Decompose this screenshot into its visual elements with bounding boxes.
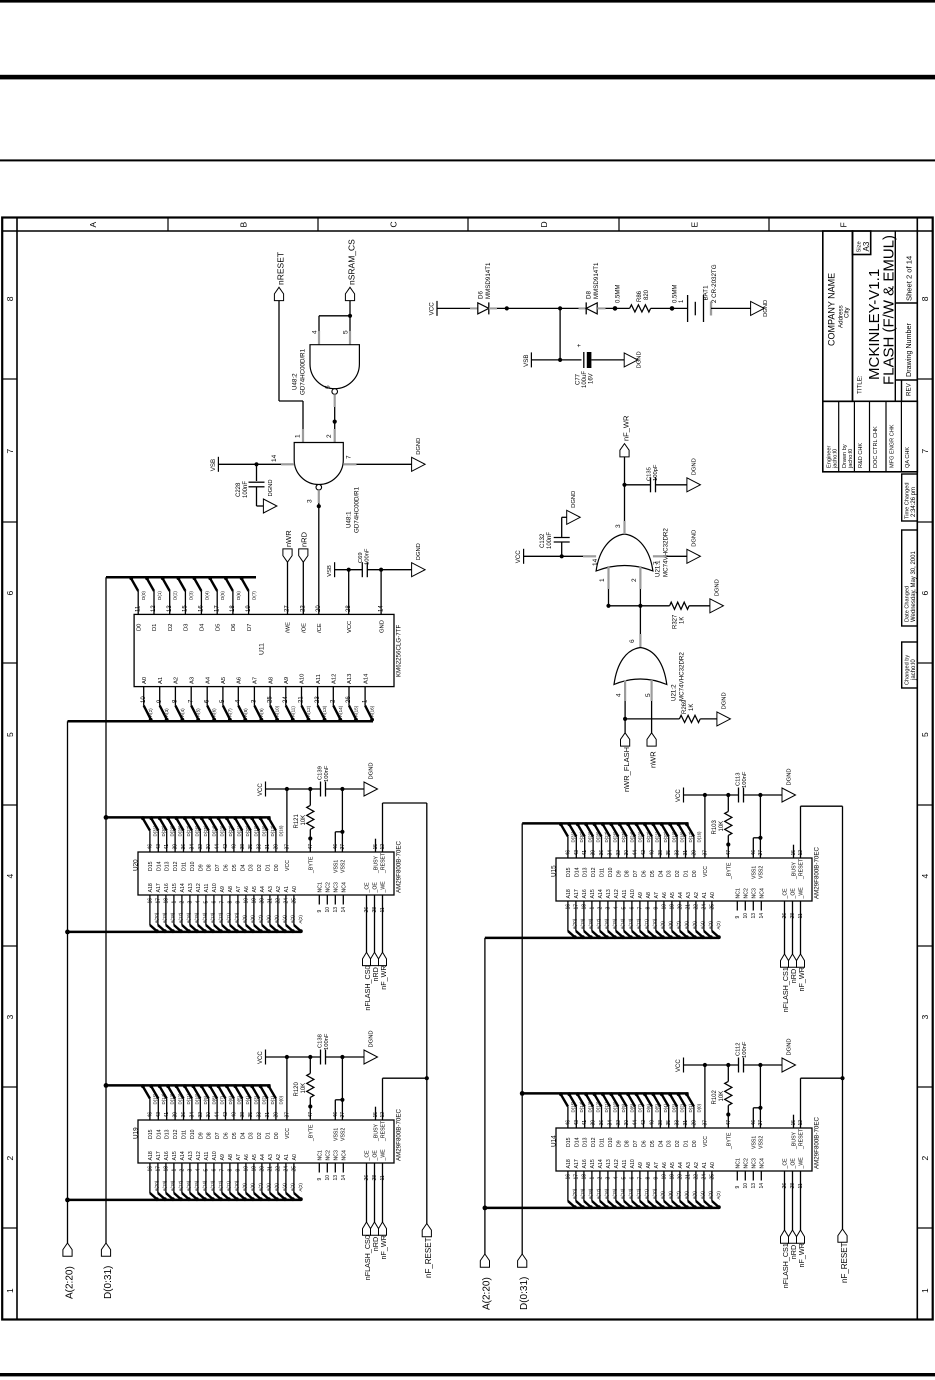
svg-text:A13: A13 bbox=[347, 674, 353, 684]
svg-text:22: 22 bbox=[693, 904, 699, 910]
svg-text:A4: A4 bbox=[260, 886, 266, 892]
svg-text:D13: D13 bbox=[165, 1129, 171, 1139]
svg-text:2: 2 bbox=[597, 1177, 603, 1180]
svg-text:A14: A14 bbox=[363, 673, 369, 684]
pins U19 data side bbox=[149, 1099, 151, 1121]
svg-text:3: 3 bbox=[307, 499, 314, 503]
wire U20 _RESET to nF_RESET net bbox=[382, 803, 384, 852]
svg-text:13: 13 bbox=[333, 1175, 339, 1181]
svg-text:A3: A3 bbox=[686, 1162, 692, 1168]
page footer rule bbox=[0, 1373, 935, 1376]
svg-text:NC3: NC3 bbox=[751, 1158, 757, 1168]
svg-text:5: 5 bbox=[343, 330, 350, 334]
ground DGND at C77 bbox=[624, 353, 638, 367]
svg-text:VCC: VCC bbox=[258, 783, 264, 796]
port D(0:31) right bbox=[518, 1254, 527, 1267]
svg-text:16: 16 bbox=[147, 1166, 153, 1172]
svg-text:29: 29 bbox=[273, 1112, 279, 1118]
svg-text:_RESET: _RESET bbox=[381, 1120, 387, 1142]
svg-text:100nF: 100nF bbox=[365, 548, 371, 565]
svg-text:_BYTE: _BYTE bbox=[308, 1124, 314, 1142]
wire to port nF_WR bbox=[800, 1181, 802, 1231]
svg-text:A5: A5 bbox=[670, 1162, 676, 1168]
svg-text:35: 35 bbox=[248, 1112, 254, 1118]
svg-text:10: 10 bbox=[325, 907, 331, 913]
title block changed-by box bbox=[902, 642, 918, 688]
svg-text:42: 42 bbox=[223, 1112, 229, 1118]
svg-text:10K: 10K bbox=[719, 821, 725, 832]
svg-text:24: 24 bbox=[701, 904, 707, 910]
svg-text:9: 9 bbox=[317, 910, 323, 913]
svg-text:D0: D0 bbox=[136, 624, 142, 631]
pins U15 _CE _OE _WE bbox=[784, 901, 786, 911]
wire to port nFLASH_CS0 bbox=[366, 905, 368, 953]
svg-text:A(2): A(2) bbox=[298, 915, 303, 924]
wire C69 to ground bbox=[368, 569, 412, 571]
svg-text:27: 27 bbox=[758, 850, 764, 856]
svg-text:D3: D3 bbox=[667, 1140, 673, 1147]
svg-text:NC2: NC2 bbox=[743, 1158, 749, 1168]
svg-text:3: 3 bbox=[5, 1015, 15, 1020]
svg-text:34: 34 bbox=[189, 1112, 195, 1118]
svg-text:A13: A13 bbox=[188, 1151, 194, 1160]
svg-text:R121: R121 bbox=[294, 813, 300, 828]
svg-text:4: 4 bbox=[613, 1177, 619, 1180]
svg-text:42: 42 bbox=[641, 850, 647, 856]
svg-text:14: 14 bbox=[341, 1175, 347, 1181]
svg-text:D(4): D(4) bbox=[204, 591, 209, 600]
svg-text:33: 33 bbox=[257, 844, 263, 850]
svg-text:13: 13 bbox=[751, 1183, 757, 1189]
pins U11 power VCC GND bbox=[348, 570, 350, 615]
svg-text:A4: A4 bbox=[678, 892, 684, 898]
svg-text:DGND: DGND bbox=[691, 530, 697, 547]
ground DGND at U48:1 pin 7 bbox=[412, 457, 426, 471]
svg-text:32: 32 bbox=[616, 1120, 622, 1126]
svg-text:MMSD914T1: MMSD914T1 bbox=[485, 262, 492, 299]
svg-text:A(16): A(16) bbox=[370, 705, 375, 717]
svg-text:A9: A9 bbox=[220, 886, 226, 892]
svg-text:NC3: NC3 bbox=[333, 882, 339, 892]
wire nWR to U11 /WE bbox=[287, 562, 289, 614]
svg-text:14: 14 bbox=[759, 913, 765, 919]
svg-text:100nF: 100nF bbox=[324, 1033, 330, 1050]
net nF_RESET right group bbox=[842, 806, 844, 1229]
svg-text:D8: D8 bbox=[586, 291, 593, 299]
wire to port nRD bbox=[374, 905, 376, 953]
bus U20 data bbox=[106, 816, 271, 819]
svg-text:A4: A4 bbox=[205, 676, 211, 684]
svg-text:B: B bbox=[239, 222, 249, 228]
svg-text:KM62256CLG-7TF: KM62256CLG-7TF bbox=[396, 625, 403, 677]
bus U15 address bbox=[485, 937, 719, 940]
svg-text:43: 43 bbox=[156, 1112, 162, 1118]
svg-text:31: 31 bbox=[265, 1112, 271, 1118]
battery BAT1 CR-2032TG bbox=[687, 295, 689, 322]
svg-text:DGND: DGND bbox=[571, 491, 577, 508]
svg-text:37: 37 bbox=[284, 844, 290, 850]
svg-text:33: 33 bbox=[675, 850, 681, 856]
pins U15 VSS1 VSS2 bbox=[752, 838, 754, 858]
svg-text:38: 38 bbox=[240, 1112, 246, 1118]
svg-text:44: 44 bbox=[633, 1120, 639, 1126]
svg-text:28: 28 bbox=[346, 605, 352, 612]
svg-text:D11: D11 bbox=[182, 1130, 188, 1139]
wire to port nFLASH_CS0 bbox=[366, 1173, 368, 1223]
svg-text:16: 16 bbox=[565, 1174, 571, 1180]
svg-text:D5: D5 bbox=[650, 870, 656, 877]
svg-text:18: 18 bbox=[230, 605, 236, 612]
svg-text:1K: 1K bbox=[689, 704, 695, 711]
wire to port nF_WR bbox=[800, 911, 802, 955]
svg-text:A(4): A(4) bbox=[180, 708, 185, 717]
port nF_WR bbox=[797, 1230, 805, 1243]
svg-text:DGND: DGND bbox=[416, 543, 422, 560]
svg-text:A15: A15 bbox=[590, 889, 596, 898]
svg-text:DGND: DGND bbox=[691, 458, 697, 475]
svg-text:19: 19 bbox=[251, 898, 257, 904]
svg-text:D6: D6 bbox=[224, 1132, 230, 1139]
svg-text:MFG ENGR CHK: MFG ENGR CHK bbox=[890, 424, 896, 468]
svg-text:44: 44 bbox=[215, 1112, 221, 1118]
svg-text:A4: A4 bbox=[260, 1154, 266, 1160]
svg-text:D9: D9 bbox=[198, 1132, 204, 1139]
svg-text:A8: A8 bbox=[228, 886, 234, 892]
svg-text:NC1: NC1 bbox=[735, 888, 741, 898]
svg-text:nWR_FLASH: nWR_FLASH bbox=[622, 747, 631, 792]
wire C135 to ground bbox=[656, 484, 687, 486]
svg-text:A1: A1 bbox=[702, 892, 708, 898]
svg-text:8: 8 bbox=[645, 907, 651, 910]
svg-text:1: 1 bbox=[171, 1169, 177, 1172]
pins U15 NC1-NC4 bbox=[736, 901, 738, 911]
svg-text:City: City bbox=[844, 306, 851, 318]
wire to port nFLASH_CS1 bbox=[784, 911, 786, 955]
svg-text:7: 7 bbox=[219, 901, 225, 904]
svg-text:18: 18 bbox=[163, 1166, 169, 1172]
svg-text:D3: D3 bbox=[249, 864, 255, 871]
svg-text:D(16): D(16) bbox=[279, 825, 284, 837]
svg-text:QA CHK: QA CHK bbox=[905, 447, 911, 468]
svg-text:46: 46 bbox=[147, 1112, 153, 1118]
svg-text:19: 19 bbox=[669, 1174, 675, 1180]
svg-text:8: 8 bbox=[227, 901, 233, 904]
svg-text:43: 43 bbox=[156, 844, 162, 850]
svg-text:47: 47 bbox=[726, 1120, 732, 1126]
svg-text:100pF: 100pF bbox=[653, 464, 659, 481]
port nF_WR bbox=[620, 444, 629, 457]
svg-text:46: 46 bbox=[333, 844, 339, 850]
svg-text:VCC: VCC bbox=[285, 860, 291, 871]
svg-text:27: 27 bbox=[758, 1120, 764, 1126]
svg-text:A12: A12 bbox=[614, 1159, 620, 1168]
svg-text:nWR: nWR bbox=[284, 530, 293, 547]
bus U19 address bbox=[68, 1199, 302, 1202]
bus D(0:31) left vertical bbox=[105, 577, 107, 1243]
svg-text:A(2:20): A(2:20) bbox=[64, 1266, 75, 1299]
svg-text:D(6): D(6) bbox=[236, 591, 241, 600]
svg-text:D11: D11 bbox=[600, 868, 606, 877]
svg-text:A1: A1 bbox=[284, 1154, 290, 1160]
svg-text:A8: A8 bbox=[228, 1154, 234, 1160]
svg-text:A6: A6 bbox=[244, 886, 250, 892]
svg-text:9: 9 bbox=[235, 901, 241, 904]
svg-text:4: 4 bbox=[616, 693, 623, 697]
title block size box bbox=[853, 231, 871, 255]
svg-text:VSS1: VSS1 bbox=[333, 1128, 339, 1141]
svg-text:_OE: _OE bbox=[373, 882, 379, 894]
svg-text:D(0): D(0) bbox=[141, 591, 146, 600]
wire to port nF_WR bbox=[382, 905, 384, 953]
svg-text:D5: D5 bbox=[232, 864, 238, 871]
svg-text:D8: D8 bbox=[625, 870, 631, 877]
svg-text:37: 37 bbox=[284, 1112, 290, 1118]
svg-text:D15: D15 bbox=[148, 1129, 154, 1139]
title block date-changed box bbox=[902, 530, 918, 626]
svg-text:MMSD914T1: MMSD914T1 bbox=[593, 262, 600, 299]
svg-text:D13: D13 bbox=[583, 867, 589, 877]
svg-text:R327: R327 bbox=[673, 614, 679, 629]
svg-text:3: 3 bbox=[187, 1169, 193, 1172]
resistor R327 1K bbox=[670, 602, 690, 609]
svg-text:3: 3 bbox=[605, 907, 611, 910]
svg-text:A(12): A(12) bbox=[306, 705, 311, 717]
title block company box bbox=[823, 231, 853, 401]
svg-text:D4: D4 bbox=[200, 623, 206, 631]
svg-text:Date Changed: Date Changed bbox=[905, 586, 911, 622]
port nRD bbox=[789, 1230, 797, 1243]
svg-text:15: 15 bbox=[373, 1112, 379, 1118]
svg-text:18: 18 bbox=[581, 904, 587, 910]
title block drawing number cell bbox=[895, 379, 917, 381]
svg-text:33: 33 bbox=[257, 1112, 263, 1118]
svg-text:A18: A18 bbox=[566, 889, 572, 898]
bus D(0:31) right vertical bbox=[521, 823, 523, 1254]
svg-text:D4: D4 bbox=[240, 1132, 246, 1139]
svg-text:A0: A0 bbox=[142, 677, 148, 684]
wire VCC to U21:1 pin 14 bbox=[524, 555, 583, 557]
svg-text:4: 4 bbox=[312, 330, 319, 334]
svg-text:30: 30 bbox=[624, 1120, 630, 1126]
wire U48:1 pin 7 to ground bbox=[343, 463, 356, 465]
test point 0.5MM left bbox=[606, 307, 630, 309]
svg-text:D3: D3 bbox=[249, 1132, 255, 1139]
svg-text:D2: D2 bbox=[675, 1140, 681, 1147]
pins U15 address side bbox=[567, 901, 569, 931]
svg-text:32: 32 bbox=[198, 844, 204, 850]
svg-text:2: 2 bbox=[631, 578, 638, 582]
svg-text:A9: A9 bbox=[220, 1154, 226, 1160]
svg-text:U15: U15 bbox=[551, 865, 558, 877]
svg-text:A(3): A(3) bbox=[164, 708, 169, 717]
svg-text:37: 37 bbox=[702, 1120, 708, 1126]
svg-text:VSS1: VSS1 bbox=[333, 860, 339, 873]
svg-text:_CE: _CE bbox=[783, 1158, 789, 1170]
svg-text:D(7): D(7) bbox=[252, 591, 257, 600]
bus A(2:20) right vertical bbox=[484, 938, 486, 1254]
ground DGND at C132 bbox=[567, 510, 581, 524]
frame inner border lines bbox=[16, 218, 18, 1320]
svg-text:7: 7 bbox=[346, 455, 353, 459]
pins U19 NC1-NC4 bbox=[318, 1163, 320, 1173]
svg-text:25: 25 bbox=[709, 904, 715, 910]
power net VSB at U48:1 pin 14 bbox=[217, 457, 219, 472]
pins U14 _BUSY _RESET bbox=[793, 1115, 795, 1128]
power net VSB source bbox=[530, 352, 532, 367]
ground DGND at R327 bbox=[710, 599, 724, 613]
svg-text:NC1: NC1 bbox=[317, 882, 323, 892]
svg-text:DGND: DGND bbox=[637, 351, 643, 368]
svg-text:A11: A11 bbox=[622, 890, 628, 899]
svg-text:DGND: DGND bbox=[268, 479, 274, 496]
port nFLASH_CS0 bbox=[363, 1222, 371, 1235]
svg-text:NC4: NC4 bbox=[759, 888, 765, 898]
svg-text:nF_WR: nF_WR bbox=[379, 965, 388, 989]
svg-text:35: 35 bbox=[248, 844, 254, 850]
svg-text:36: 36 bbox=[599, 1120, 605, 1126]
pins U11 address side bbox=[143, 687, 145, 706]
svg-text:VSS2: VSS2 bbox=[758, 1136, 764, 1149]
svg-text:D3: D3 bbox=[667, 870, 673, 877]
svg-text:4: 4 bbox=[195, 901, 201, 904]
svg-text:COMPANY NAME: COMPANY NAME bbox=[827, 273, 837, 346]
svg-text:20: 20 bbox=[677, 904, 683, 910]
svg-text:R86: R86 bbox=[637, 290, 643, 302]
svg-text:A9: A9 bbox=[284, 677, 290, 684]
svg-text:A6: A6 bbox=[237, 677, 243, 684]
svg-text:46: 46 bbox=[565, 850, 571, 856]
svg-text:D0: D0 bbox=[692, 870, 698, 877]
svg-text:9: 9 bbox=[653, 1177, 659, 1180]
svg-text:39: 39 bbox=[173, 844, 179, 850]
ground DGND at U20 bbox=[364, 782, 378, 796]
svg-text:VCC: VCC bbox=[676, 789, 682, 802]
svg-text:D1: D1 bbox=[152, 624, 158, 631]
svg-text:+: + bbox=[576, 344, 583, 348]
svg-text:D12: D12 bbox=[173, 861, 179, 871]
svg-text:D1: D1 bbox=[266, 1132, 272, 1139]
svg-text:46: 46 bbox=[751, 1120, 757, 1126]
svg-text:jacho:l0: jacho:l0 bbox=[911, 659, 917, 681]
svg-text:17: 17 bbox=[214, 605, 220, 612]
svg-text:8: 8 bbox=[645, 1177, 651, 1180]
svg-text:41: 41 bbox=[164, 844, 170, 850]
ground DGND at R269 bbox=[717, 712, 731, 726]
capacitor C112 100nF bbox=[738, 1058, 740, 1073]
svg-text:22: 22 bbox=[693, 1174, 699, 1180]
resistor R86 820 bbox=[630, 305, 651, 312]
svg-text:43: 43 bbox=[574, 850, 580, 856]
svg-text:13: 13 bbox=[751, 913, 757, 919]
svg-text:24: 24 bbox=[283, 898, 289, 904]
svg-text:D10: D10 bbox=[190, 1129, 196, 1139]
svg-text:24: 24 bbox=[283, 696, 289, 703]
svg-text:VSS1: VSS1 bbox=[751, 866, 757, 879]
svg-text:A17: A17 bbox=[574, 1159, 580, 1168]
title block approval table bbox=[823, 401, 918, 472]
power rail VCC at U19 bbox=[286, 1057, 288, 1120]
svg-text:A18: A18 bbox=[148, 1151, 154, 1160]
svg-text:AM29F800B-70EC: AM29F800B-70EC bbox=[814, 847, 821, 899]
svg-text:A12: A12 bbox=[196, 1151, 202, 1160]
svg-text:31: 31 bbox=[265, 844, 271, 850]
svg-text:12: 12 bbox=[151, 605, 157, 612]
wire D6 to node VSB bbox=[497, 307, 560, 309]
port nWR at U11 bbox=[283, 549, 292, 562]
svg-text:A(7): A(7) bbox=[227, 708, 232, 717]
svg-text:AM29F800B-70EC: AM29F800B-70EC bbox=[396, 841, 403, 893]
svg-text:19: 19 bbox=[251, 1166, 257, 1172]
svg-text:D12: D12 bbox=[173, 1129, 179, 1139]
svg-text:Drawing Number: Drawing Number bbox=[904, 322, 913, 377]
svg-text:D6: D6 bbox=[642, 1140, 648, 1147]
svg-text:20: 20 bbox=[677, 1174, 683, 1180]
svg-text:A1: A1 bbox=[702, 1162, 708, 1168]
pins U14 address side bbox=[567, 1171, 569, 1201]
svg-text:Sheet 2 of 14: Sheet 2 of 14 bbox=[905, 256, 914, 301]
svg-text:19: 19 bbox=[246, 605, 252, 612]
svg-text:/OE: /OE bbox=[302, 623, 308, 633]
svg-text:A7: A7 bbox=[654, 1162, 660, 1168]
svg-text:C69: C69 bbox=[358, 552, 364, 563]
port nWR at U21:2 bbox=[647, 733, 656, 746]
svg-text:8: 8 bbox=[920, 296, 930, 301]
pins U20 NC1-NC4 bbox=[318, 895, 320, 905]
page subheader rule bbox=[0, 159, 935, 161]
svg-text:VCC: VCC bbox=[429, 302, 436, 316]
svg-text:_CE: _CE bbox=[365, 882, 371, 894]
svg-text:D0: D0 bbox=[274, 864, 280, 871]
svg-text:D9: D9 bbox=[198, 864, 204, 871]
svg-text:47: 47 bbox=[308, 1112, 314, 1118]
svg-text:C: C bbox=[389, 221, 399, 227]
svg-text:U48:2: U48:2 bbox=[292, 373, 299, 390]
capacitor C135 100pF bbox=[650, 477, 652, 492]
svg-text:29: 29 bbox=[273, 844, 279, 850]
diode D6 bbox=[470, 307, 478, 309]
svg-text:5: 5 bbox=[203, 901, 209, 904]
svg-text:A2: A2 bbox=[174, 677, 180, 684]
svg-text:jacho:l0: jacho:l0 bbox=[848, 449, 854, 469]
svg-text:A6: A6 bbox=[662, 892, 668, 898]
svg-text:16V: 16V bbox=[589, 373, 595, 384]
bus U14 data bbox=[522, 1092, 688, 1095]
svg-text:A(10): A(10) bbox=[275, 705, 280, 717]
svg-text:6: 6 bbox=[920, 591, 930, 596]
svg-text:A16: A16 bbox=[582, 889, 588, 898]
svg-text:25: 25 bbox=[291, 898, 297, 904]
svg-text:46: 46 bbox=[565, 1120, 571, 1126]
svg-text:_OE: _OE bbox=[791, 888, 797, 900]
port nFLASH_CS0 bbox=[363, 952, 371, 965]
svg-text:C138: C138 bbox=[318, 1034, 324, 1048]
svg-text:25: 25 bbox=[709, 1174, 715, 1180]
svg-text:7: 7 bbox=[5, 449, 15, 454]
svg-text:18: 18 bbox=[581, 1174, 587, 1180]
svg-text:D5: D5 bbox=[232, 1132, 238, 1139]
svg-text:5: 5 bbox=[920, 732, 930, 737]
svg-text:D(0:31): D(0:31) bbox=[103, 1266, 114, 1299]
svg-text:6: 6 bbox=[629, 639, 636, 643]
svg-text:9: 9 bbox=[653, 907, 659, 910]
pins U20 _CE _OE _WE bbox=[366, 895, 368, 905]
capacitor C138 100nF bbox=[320, 1050, 322, 1065]
svg-text:NC2: NC2 bbox=[743, 888, 749, 898]
wire nWR_FLASH stub bbox=[624, 719, 626, 733]
svg-text:10: 10 bbox=[661, 1174, 667, 1180]
svg-text:A10: A10 bbox=[212, 1151, 218, 1160]
svg-text:A3: A3 bbox=[268, 1154, 274, 1160]
